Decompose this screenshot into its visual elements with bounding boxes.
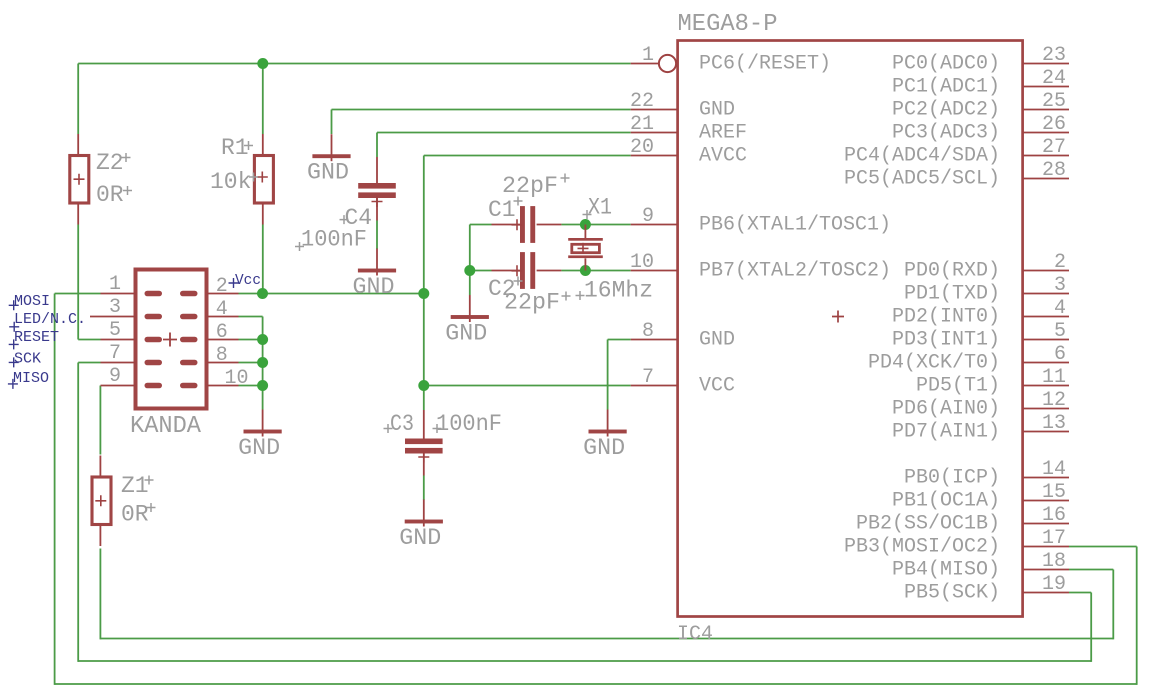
KANDA pin 3 stub	[90, 316, 136, 318]
wire MOSI net: bottom horizontal	[55, 683, 1137, 685]
junction GND KANDA pin 6	[257, 334, 268, 345]
svg-text:28: 28	[1042, 159, 1066, 182]
svg-text:GND: GND	[399, 525, 441, 551]
svg-text:PC0(ADC0): PC0(ADC0)	[892, 53, 1000, 76]
IC4 pin 15 (PB1(OC1A))	[892, 481, 1069, 513]
KANDA pin 7 stub	[101, 362, 136, 364]
IC4 pin 28 (PC5(ADC5/SCL))	[844, 159, 1069, 191]
svg-text:22: 22	[630, 90, 654, 113]
svg-text:SCK: SCK	[14, 350, 41, 367]
wire XTAL1 net: horizontal into C1 left plate	[470, 224, 492, 226]
svg-text:8: 8	[642, 320, 654, 343]
svg-text:6: 6	[216, 321, 228, 344]
svg-text:GND: GND	[583, 435, 625, 461]
svg-text:11: 11	[1042, 366, 1066, 389]
KANDA pin 7 pad	[145, 360, 163, 366]
resistor Z2 origin cross	[74, 174, 85, 185]
ground symbol GND (below KANDA)	[262, 410, 264, 437]
svg-text:PC3(ADC3): PC3(ADC3)	[892, 122, 1000, 145]
svg-text:4: 4	[1054, 297, 1066, 320]
capacitor C2 plates	[520, 252, 525, 289]
ground symbol GND (below C3)	[423, 500, 425, 527]
svg-text:5: 5	[109, 319, 121, 342]
junction GND at C2 left	[464, 265, 475, 276]
svg-text:GND: GND	[445, 320, 487, 346]
crystal X1 top pin	[584, 225, 586, 239]
svg-text:PD6(AIN0): PD6(AIN0)	[892, 398, 1000, 421]
IC4 pin 27 (PC4(ADC4/SDA))	[844, 136, 1069, 168]
wire RESET net: horizontal into KANDA pin 5	[78, 339, 100, 341]
KANDA pin 2 stub	[207, 293, 239, 295]
KANDA pin 4 stub	[207, 316, 239, 318]
IC4 pin 12 (PD6(AIN0))	[892, 389, 1069, 421]
svg-text:16Mhz: 16Mhz	[584, 278, 653, 304]
svg-text:PD2(INT0): PD2(INT0)	[892, 306, 1000, 329]
wire MISO net: horizontal into IC4 pin 18	[1069, 569, 1113, 571]
svg-text:C3: C3	[390, 411, 414, 437]
junction XTAL2 at X1 bottom	[580, 265, 591, 276]
svg-text:27: 27	[1042, 136, 1066, 159]
KANDA pin 5 stub	[101, 339, 136, 341]
resistor R1 pin bottom	[262, 203, 264, 225]
svg-text:Vcc: Vcc	[235, 272, 261, 289]
svg-text:21: 21	[630, 113, 654, 136]
IC4 pin 7 (VCC)	[631, 366, 735, 398]
svg-text:PC5(ADC5/SCL): PC5(ADC5/SCL)	[844, 168, 1000, 191]
IC4 origin cross	[832, 311, 844, 323]
wire GND net: vertical drop at x=331.5	[331, 110, 333, 135]
KANDA pin 4 pad	[180, 314, 198, 320]
svg-text:100nF: 100nF	[436, 411, 502, 437]
svg-text:13: 13	[1042, 412, 1066, 435]
capacitor C2 origin cross	[512, 265, 523, 276]
svg-text:23: 23	[1042, 44, 1066, 67]
svg-text:GND: GND	[307, 160, 349, 186]
svg-text:7: 7	[109, 342, 121, 365]
resistor Z1 origin cross	[95, 495, 106, 506]
svg-text:R1: R1	[221, 135, 249, 161]
svg-text:PB2(SS/OC1B): PB2(SS/OC1B)	[856, 513, 1000, 536]
capacitor C4 origin cross	[372, 196, 383, 207]
wire GND net: IC4 pin 8 horizontal	[608, 339, 631, 341]
IC4 pin 22 (GND)	[630, 90, 735, 122]
svg-text:3: 3	[109, 296, 121, 319]
svg-text:PB0(ICP): PB0(ICP)	[904, 467, 1000, 490]
wire XTAL2 net: horizontal into C2 left plate	[470, 270, 492, 272]
svg-text:22pF: 22pF	[502, 173, 558, 199]
capacitor C1 pin right	[537, 224, 562, 226]
svg-text:9: 9	[109, 365, 121, 388]
wire C4 bottom to gnd symbol	[376, 221, 378, 250]
wire GND net: KANDA pin 4 horizontal	[239, 316, 263, 318]
IC4 pin 10 (PB7(XTAL2/TOSC2))	[630, 251, 891, 283]
svg-text:12: 12	[1042, 389, 1066, 412]
crystal X1 body	[572, 244, 600, 252]
KANDA pin 1 pad	[145, 291, 163, 297]
svg-text:PD3(INT1): PD3(INT1)	[892, 329, 1000, 352]
svg-text:MEGA8-P: MEGA8-P	[678, 11, 778, 38]
IC4 pin 26 (PC3(ADC3))	[892, 113, 1069, 145]
IC4 pin 9 (PB6(XTAL1/TOSC1))	[631, 205, 891, 237]
svg-text:0R: 0R	[96, 182, 124, 208]
IC4 pin 11 (PD5(T1))	[916, 366, 1069, 398]
svg-text:LED/N.C.: LED/N.C.	[14, 311, 86, 328]
IC4 pin 23 (PC0(ADC0))	[892, 44, 1069, 76]
svg-text:8: 8	[216, 344, 228, 367]
svg-text:GND: GND	[353, 274, 395, 300]
capacitor C4 (100nF) pin top	[376, 157, 378, 183]
wire MISO net: Z1 bottom vertical	[99, 549, 101, 640]
wire GND net: KANDA pin 6 horizontal	[239, 339, 263, 341]
svg-text:PC6(/RESET): PC6(/RESET)	[699, 53, 831, 76]
svg-text:KANDA: KANDA	[130, 413, 202, 440]
IC4 pin 4 (PD2(INT0))	[892, 297, 1069, 329]
svg-text:Z1: Z1	[121, 473, 149, 499]
wire SCK net: bottom horizontal	[78, 660, 1091, 662]
svg-text:1: 1	[109, 273, 121, 296]
junction RESET/R1 top	[257, 58, 268, 69]
capacitor C1 origin cross	[512, 219, 523, 230]
svg-text:MOSI: MOSI	[14, 293, 50, 310]
wire GND net: below C1/C2 junction to gnd symbol	[469, 271, 471, 296]
wire VCC net: AVCC vertical from IC4 AVCC row down to VCC row	[423, 156, 425, 386]
IC4 pin 20 (AVCC)	[630, 136, 747, 168]
capacitor C2 pin left	[492, 270, 521, 272]
svg-text:18: 18	[1042, 550, 1066, 573]
wire AREF net: horizontal from C4 to IC4 pin 21	[377, 132, 631, 134]
resistor R1 origin cross	[257, 172, 268, 183]
svg-text:X1: X1	[588, 195, 612, 221]
wire GND net: KANDA pins 4-6-8-10 vertical bus	[262, 317, 264, 410]
junction VCC at AVCC line	[418, 288, 429, 299]
crystal X1 bottom pin	[584, 258, 586, 270]
IC U IC4 MEGA8-P body	[678, 41, 1023, 617]
svg-text:PC2(ADC2): PC2(ADC2)	[892, 99, 1000, 122]
capacitor C3 origin cross	[418, 452, 429, 463]
IC4 pin 25 (PC2(ADC2))	[892, 90, 1069, 122]
KANDA pin 2 pad	[180, 291, 198, 297]
resistor Z2 body	[70, 156, 89, 204]
svg-text:2: 2	[1054, 251, 1066, 274]
capacitor C1 plates	[520, 206, 525, 243]
IC4 pin 16 (PB2(SS/OC1B))	[856, 504, 1069, 536]
IC4 pin 17 (PB3(MOSI/OC2))	[844, 527, 1069, 559]
svg-text:17: 17	[1042, 527, 1066, 550]
svg-text:PC4(ADC4/SDA): PC4(ADC4/SDA)	[844, 145, 1000, 168]
wire GND net: IC4 pin 8 vertical drop to gnd symbol	[607, 340, 609, 410]
svg-text:20: 20	[630, 136, 654, 159]
svg-text:10k: 10k	[210, 169, 251, 195]
KANDA pin 10 pad	[180, 383, 198, 389]
wire XTAL1 net: C1 right to X1 junction to IC4 pin 9	[561, 224, 630, 226]
ground symbol GND (below C1/C2)	[469, 295, 471, 322]
svg-text:PD0(RXD): PD0(RXD)	[904, 260, 1000, 283]
svg-text:7: 7	[642, 366, 654, 389]
junction VCC pin 7 / C3	[418, 380, 429, 391]
capacitor C3 plates	[405, 439, 443, 445]
wire VCC net: horizontal from KANDA pin 2 to AVCC line	[239, 293, 424, 295]
svg-text:16: 16	[1042, 504, 1066, 527]
ground symbol GND (pin 22 net)	[331, 134, 333, 161]
KANDA pin 8 stub	[207, 362, 239, 364]
svg-text:19: 19	[1042, 573, 1066, 596]
crystal X1 bottom plate	[568, 255, 603, 258]
crystal X1 origin cross	[578, 243, 589, 254]
resistor Z1 body	[92, 477, 111, 525]
junction XTAL1 at X1 top	[580, 219, 591, 230]
wire MISO net: bottom horizontal	[100, 638, 1113, 640]
wire SCK net: right vertical up to IC4 pin 19	[1090, 593, 1092, 662]
KANDA pin 1 stub	[101, 293, 136, 295]
wire RESET net: Z2 bottom down to KANDA pin 5	[77, 225, 79, 340]
IC4 pin 24 (PC1(ADC1))	[892, 67, 1069, 99]
capacitor C1 pin left	[492, 224, 521, 226]
svg-text:10: 10	[225, 367, 249, 390]
svg-text:2: 2	[216, 275, 228, 298]
svg-text:PB3(MOSI/OC2): PB3(MOSI/OC2)	[844, 536, 1000, 559]
wire XTAL1 net: C1 left vertical down to C2 junction	[469, 225, 471, 271]
svg-text:VCC: VCC	[699, 375, 735, 398]
IC4 pin 2 (PD0(RXD))	[904, 251, 1069, 283]
wire MOSI net: horizontal from corner to KANDA pin 1	[55, 293, 101, 295]
wire RESET net: vertical down to Z2 top	[77, 64, 79, 135]
ground symbol GND (below C4)	[376, 249, 378, 276]
svg-text:15: 15	[1042, 481, 1066, 504]
capacitor C4 plates	[358, 183, 396, 189]
KANDA pin 8 pad	[180, 360, 198, 366]
svg-text:0R: 0R	[121, 502, 149, 528]
KANDA pin 3 pad	[145, 314, 163, 320]
ground symbol GND (IC4 pin 8 net)	[607, 410, 609, 437]
capacitor C4 pin bottom	[376, 198, 378, 221]
wire AREF net: vertical to C4 top	[376, 133, 378, 158]
IC4 pin 14 (PB0(ICP))	[904, 458, 1069, 490]
svg-text:PB4(MISO): PB4(MISO)	[892, 559, 1000, 582]
wire VCC net: AVCC horizontal to IC4 pin 20	[424, 155, 631, 157]
wire RESET net: top horizontal from Z2/R1 to IC4 pin 1	[78, 63, 631, 65]
svg-text:RESET: RESET	[14, 329, 59, 346]
svg-text:PC1(ADC1): PC1(ADC1)	[892, 76, 1000, 99]
wire GND net: horizontal from IC4 pin 22 to gnd symbol	[332, 109, 631, 111]
svg-text:25: 25	[1042, 90, 1066, 113]
svg-text:C1: C1	[488, 197, 516, 223]
svg-text:PB7(XTAL2/TOSC2): PB7(XTAL2/TOSC2)	[699, 260, 891, 283]
wire GND net: AVCC junction down to C3 top	[423, 386, 425, 411]
wire GND net: KANDA pin 8 horizontal	[239, 362, 263, 364]
IC4 pin 8 (GND)	[631, 320, 735, 352]
svg-text:10: 10	[630, 251, 654, 274]
svg-text:24: 24	[1042, 67, 1066, 90]
wire MOSI net: long left vertical	[54, 294, 56, 685]
svg-text:4: 4	[216, 298, 228, 321]
svg-text:PD1(TXD): PD1(TXD)	[904, 283, 1000, 306]
svg-text:PD4(XCK/T0): PD4(XCK/T0)	[868, 352, 1000, 375]
IC4 pin 3 (PD1(TXD))	[904, 274, 1069, 306]
resistor R1 pin top	[262, 134, 264, 156]
svg-text:MISO: MISO	[13, 370, 49, 387]
KANDA pin 9 stub	[101, 385, 136, 387]
svg-text:PB6(XTAL1/TOSC1): PB6(XTAL1/TOSC1)	[699, 214, 891, 237]
KANDA pin 9 pad	[145, 383, 163, 389]
wire SCK net: horizontal into IC4 pin 19	[1069, 592, 1091, 594]
wire MOSI net: horizontal into IC4 pin 17	[1069, 546, 1137, 548]
svg-text:3: 3	[1054, 274, 1066, 297]
junction VCC at R1 bottom / KANDA pin 2	[257, 288, 268, 299]
capacitor C3 pin bottom	[423, 454, 425, 476]
IC4 pin 1 (PC6(/RESET))	[631, 44, 831, 76]
wire MISO net: vertical from KANDA pin 9 down to Z1	[99, 386, 101, 455]
svg-text:GND: GND	[699, 329, 735, 352]
svg-text:PD5(T1): PD5(T1)	[916, 375, 1000, 398]
wire GND net: KANDA pin 10 horizontal	[239, 385, 263, 387]
svg-text:GND: GND	[238, 435, 280, 461]
wire SCK net: left vertical	[77, 363, 79, 662]
KANDA pin 5 pad	[145, 337, 163, 343]
svg-text:100nF: 100nF	[301, 227, 367, 253]
wire C3 bottom to gnd symbol	[423, 476, 425, 501]
svg-text:IC4: IC4	[677, 623, 713, 646]
IC4 pin 18 (PB4(MISO))	[892, 550, 1069, 582]
svg-text:6: 6	[1054, 343, 1066, 366]
svg-text:Z2: Z2	[96, 150, 124, 176]
resistor R1 body	[254, 156, 273, 204]
svg-text:5: 5	[1054, 320, 1066, 343]
svg-text:GND: GND	[699, 99, 735, 122]
IC4 pin 5 (PD3(INT1))	[892, 320, 1069, 352]
IC4 pin 21 (AREF)	[630, 113, 747, 145]
resistor Z1 pin bottom	[99, 525, 101, 547]
svg-text:PD7(AIN1): PD7(AIN1)	[892, 421, 1000, 444]
resistor Z1 pin top	[99, 456, 101, 478]
IC4 pin 6 (PD4(XCK/T0))	[868, 343, 1069, 375]
wire VCC net: horizontal to IC4 pin 7 VCC	[424, 385, 631, 387]
resistor Z2 pin top	[77, 134, 79, 156]
svg-text:9: 9	[642, 205, 654, 228]
junction GND KANDA pin 8	[257, 357, 268, 368]
resistor Z2 pin bottom	[77, 203, 79, 225]
IC4 pin 13 (PD7(AIN1))	[892, 412, 1069, 444]
svg-text:26: 26	[1042, 113, 1066, 136]
wire MOSI net: right vertical up to IC4 pin 17	[1136, 547, 1138, 685]
capacitor C3 (100nF) pin top	[423, 410, 425, 439]
capacitor C2 pin right	[537, 270, 562, 272]
svg-text:AVCC: AVCC	[699, 145, 747, 168]
junction GND KANDA pin 10	[257, 380, 268, 391]
wire RESET net: R1 top vertical	[262, 64, 264, 135]
KANDA pin 10 stub	[207, 385, 239, 387]
svg-text:PB1(OC1A): PB1(OC1A)	[892, 490, 1000, 513]
svg-text:PB5(SCK): PB5(SCK)	[904, 582, 1000, 605]
connector KANDA origin cross	[163, 333, 177, 347]
svg-text:14: 14	[1042, 458, 1066, 481]
wire XTAL2 net: C2 right to X1 junction to IC4 pin 10	[561, 270, 630, 272]
IC4 pin 19 (PB5(SCK))	[904, 573, 1069, 605]
svg-text:1: 1	[642, 44, 654, 67]
KANDA pin 6 stub	[207, 339, 239, 341]
crystal X1 top plate	[568, 238, 603, 241]
KANDA pin 6 pad	[180, 337, 198, 343]
connector KANDA body	[136, 270, 207, 409]
svg-text:AREF: AREF	[699, 122, 747, 145]
svg-text:22pF: 22pF	[504, 290, 560, 316]
wire VCC net: R1 bottom vertical	[262, 225, 264, 294]
wire MISO net: right vertical up to IC4 pin 18	[1112, 570, 1114, 640]
wire SCK net: horizontal from corner to KANDA pin 7	[78, 362, 100, 364]
